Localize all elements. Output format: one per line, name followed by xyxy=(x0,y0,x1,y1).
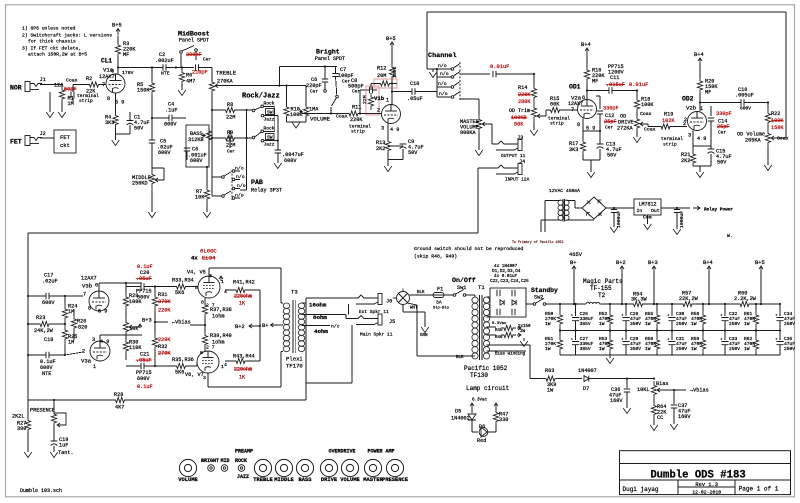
svg-text:V2b: V2b xyxy=(686,105,696,112)
svg-text:220pF: 220pF xyxy=(306,83,322,89)
svg-text:J1: J1 xyxy=(40,77,46,83)
filter capacitor C26 xyxy=(575,303,577,305)
resistor R1 1M xyxy=(59,86,64,103)
svg-text:250V: 250V xyxy=(784,346,795,352)
capacitor C37 47uF 160V xyxy=(673,390,675,404)
plate wire to C2 xyxy=(118,67,163,69)
jack J6 Ext Spkr 11 xyxy=(352,295,378,298)
svg-text:R31: R31 xyxy=(158,292,167,298)
svg-text:1K: 1K xyxy=(239,301,245,307)
svg-text:C10: C10 xyxy=(410,81,419,87)
svg-text:Cer: Cer xyxy=(605,125,614,131)
svg-text:370K: 370K xyxy=(158,299,171,305)
svg-text:220K: 220K xyxy=(158,308,171,314)
svg-text:272KA: 272KA xyxy=(617,126,633,132)
filter resistor R55 xyxy=(656,303,658,305)
svg-text:Red: Red xyxy=(477,438,486,444)
svg-text:n/o: n/o xyxy=(237,183,246,189)
svg-text:Magic Parts: Magic Parts xyxy=(583,278,623,285)
capacitor C6 .001uF 600V xyxy=(184,148,190,151)
svg-text:Panel SPDT: Panel SPDT xyxy=(315,56,345,62)
svg-text:Bright: Bright xyxy=(316,49,340,56)
filter resistor R62 xyxy=(755,329,757,331)
knob PRESENCE xyxy=(386,459,403,476)
wire R3 to plate xyxy=(117,57,119,74)
filter capacitor C28 xyxy=(625,303,627,305)
8ohm tap xyxy=(302,314,347,316)
svg-text:1W: 1W xyxy=(545,321,551,327)
svg-text:1W: 1W xyxy=(691,321,697,327)
svg-text:R35,R36: R35,R36 xyxy=(172,357,194,363)
svg-text:2x150: 2x150 xyxy=(518,325,531,329)
svg-text:350V: 350V xyxy=(630,321,641,327)
svg-text:Cer: Cer xyxy=(203,58,211,63)
svg-text:220K: 220K xyxy=(518,92,531,98)
MidBoost switch SPDT xyxy=(180,54,182,68)
BASS box 312KB xyxy=(186,125,209,167)
jack J5 Main Spkr 11 xyxy=(352,316,378,319)
svg-text:TF-155: TF-155 xyxy=(590,285,612,292)
svg-text:1ohm: 1ohm xyxy=(212,340,224,346)
tube V3b xyxy=(89,291,109,311)
svg-text:Cer: Cer xyxy=(310,89,319,95)
ground below R7 xyxy=(203,212,211,218)
svg-text:4 9: 4 9 xyxy=(390,127,399,133)
choke T2 xyxy=(586,302,600,304)
svg-text:280K: 280K xyxy=(518,99,531,105)
Channel section wire box xyxy=(427,11,786,13)
resistor R25 1M xyxy=(62,324,67,345)
svg-text:5K6: 5K6 xyxy=(175,290,184,296)
svg-text:.015uF: .015uF xyxy=(606,82,625,88)
svg-text:INPUT 12A: INPUT 12A xyxy=(505,177,530,183)
svg-text:22M: 22M xyxy=(226,115,235,121)
svg-text:PREAMP: PREAMP xyxy=(235,449,253,455)
resistor R32 270K->220K xyxy=(152,333,157,352)
svg-text:R41,R42: R41,R42 xyxy=(233,280,255,286)
svg-text:7: 7 xyxy=(102,82,105,88)
capacitor Cer at relay xyxy=(227,138,233,141)
svg-text:Main Spkr 11: Main Spkr 11 xyxy=(360,332,393,338)
HV rectifier block xyxy=(487,296,491,298)
svg-text:SW: SW xyxy=(267,110,273,116)
resistor R11 220K xyxy=(345,111,362,116)
capacitor C12 330pF xyxy=(599,96,601,109)
T3 core xyxy=(292,300,294,353)
resistor R15 60K xyxy=(543,115,546,117)
svg-text:R28: R28 xyxy=(114,392,123,398)
svg-text:T3: T3 xyxy=(291,289,298,296)
svg-text:2: 2 xyxy=(82,349,85,355)
filter capacitor C30 xyxy=(671,303,673,305)
resistor 22M grid (rotated label) xyxy=(368,93,373,110)
svg-text:To Primary of Pacific 1052: To Primary of Pacific 1052 xyxy=(512,240,563,244)
svg-text:330: 330 xyxy=(499,417,508,423)
svg-text:(skip R48, R49): (skip R48, R49) xyxy=(414,254,457,260)
svg-text:50K: 50K xyxy=(514,122,524,128)
resistor R20 150K MF xyxy=(697,78,702,93)
svg-text:Dumble ODS #183: Dumble ODS #183 xyxy=(650,470,745,482)
svg-text:312KB: 312KB xyxy=(188,137,204,143)
svg-text:390pF: 390pF xyxy=(186,52,202,58)
tube V2b xyxy=(688,112,707,131)
svg-text:BASS: BASS xyxy=(299,477,313,483)
filter resistor R53 xyxy=(609,329,611,331)
resistor R35,R36 5K6 xyxy=(172,363,190,368)
svg-text:Dumble 103.sch: Dumble 103.sch xyxy=(20,488,62,494)
svg-text:B+5: B+5 xyxy=(755,260,765,266)
svg-text:110K: 110K xyxy=(129,345,142,351)
svg-text:6: 6 xyxy=(582,95,585,101)
svg-text:MASTER: MASTER xyxy=(363,477,383,483)
capacitor C13 4.7uF 50V xyxy=(583,130,600,132)
svg-text:385V: 385V xyxy=(580,346,591,352)
wire J1 to grid xyxy=(40,84,62,86)
svg-text:Coax: Coax xyxy=(640,111,652,117)
svg-text:102K: 102K xyxy=(662,118,675,124)
svg-text:7: 7 xyxy=(83,292,86,298)
svg-text:terminal: terminal xyxy=(661,136,683,142)
svg-text:VOLUME: VOLUME xyxy=(340,477,360,483)
svg-text:DRIVE: DRIVE xyxy=(321,477,338,483)
filter capacitor C32 xyxy=(724,303,726,305)
svg-text:V6, V7: V6, V7 xyxy=(185,372,204,378)
knob VOLUME xyxy=(179,459,196,476)
B+ rail xyxy=(546,303,586,305)
OD Trim pot xyxy=(531,101,536,124)
ground below R6 xyxy=(181,84,183,90)
svg-text:385V: 385V xyxy=(580,321,591,327)
svg-text:2: 2 xyxy=(684,117,687,123)
filter resistor R61 xyxy=(755,303,757,305)
filter mid rail xyxy=(560,330,780,332)
svg-text:FET: FET xyxy=(10,139,22,146)
plate wire bottom tube to OPT xyxy=(207,373,209,387)
svg-text:3K3: 3K3 xyxy=(105,120,114,126)
svg-text:Coax: Coax xyxy=(336,114,348,120)
svg-text:1M: 1M xyxy=(68,309,74,315)
Rock/Jazz switch 2 xyxy=(252,136,255,139)
MIDDLE pot 250KD xyxy=(152,167,164,169)
svg-text:1W: 1W xyxy=(599,346,605,352)
svg-text:1ohm: 1ohm xyxy=(212,314,224,320)
PAB relay contacts xyxy=(231,170,233,200)
filter resistor R50 xyxy=(559,303,561,305)
filter capacitor C33 xyxy=(724,329,726,331)
svg-text:In: In xyxy=(637,208,643,214)
filter resistor R52 xyxy=(609,303,611,305)
svg-text:4M7: 4M7 xyxy=(186,79,195,85)
svg-text:Relay Power: Relay Power xyxy=(704,208,733,213)
svg-text:Tant.: Tant. xyxy=(58,450,74,456)
wire J4 to power amp send xyxy=(478,167,492,169)
svg-text:50V: 50V xyxy=(408,150,418,156)
svg-text:CL1: CL1 xyxy=(101,58,112,65)
tube V3a xyxy=(90,341,110,361)
svg-text:T2: T2 xyxy=(598,292,606,299)
svg-text:Jazz: Jazz xyxy=(264,117,275,123)
svg-text:C18: C18 xyxy=(44,337,53,343)
svg-text:TREBLE: TREBLE xyxy=(253,477,273,483)
svg-text:Plexi: Plexi xyxy=(286,356,303,363)
OD Volume pot 205KA xyxy=(765,128,770,148)
svg-text:EL34: EL34 xyxy=(202,255,216,262)
MASTER VOLUME pot 900KA xyxy=(478,99,480,115)
svg-text:1W: 1W xyxy=(545,346,551,352)
Vbias arrow xyxy=(155,321,168,323)
svg-text:3A: 3A xyxy=(436,300,442,306)
resistor R2 22K xyxy=(85,82,103,87)
resistor R8 22M xyxy=(224,107,236,112)
svg-text:1: 1 xyxy=(386,98,389,104)
T3 primary winding xyxy=(283,303,290,308)
svg-text:160V: 160V xyxy=(610,398,623,404)
svg-text:820: 820 xyxy=(78,325,87,331)
svg-text:1: 1 xyxy=(93,364,96,370)
svg-text:6: 6 xyxy=(95,283,98,289)
svg-text:J2: J2 xyxy=(40,131,46,137)
svg-text:ROCK: ROCK xyxy=(235,458,247,464)
svg-text:R37,R38: R37,R38 xyxy=(210,307,232,313)
svg-text:R32: R32 xyxy=(158,344,167,350)
T1 core xyxy=(479,295,481,360)
svg-text:900KA: 900KA xyxy=(460,130,476,136)
svg-text:OVERDRIVE: OVERDRIVE xyxy=(328,449,355,455)
svg-text:3: 3 xyxy=(381,126,384,132)
svg-text:n/o: n/o xyxy=(235,166,244,172)
svg-text:2K2L: 2K2L xyxy=(12,414,24,420)
svg-text:R14: R14 xyxy=(518,85,527,91)
wire bass to junction xyxy=(208,143,210,167)
svg-text:210pF: 210pF xyxy=(192,70,208,76)
svg-text:600V: 600V xyxy=(137,376,150,382)
bias winding xyxy=(487,344,531,346)
svg-text:20M: 20M xyxy=(377,73,386,79)
svg-text:50pF: 50pF xyxy=(64,87,76,93)
NFB feed line xyxy=(305,383,307,400)
svg-text:250V: 250V xyxy=(676,346,687,352)
svg-text:1W: 1W xyxy=(744,346,750,352)
svg-text:5 9: 5 9 xyxy=(115,100,124,106)
title block frame xyxy=(620,451,791,495)
svg-text:LM7812: LM7812 xyxy=(638,202,656,208)
svg-text:250V: 250V xyxy=(729,346,740,352)
resistor R29 100K xyxy=(123,292,128,311)
svg-text:2K2: 2K2 xyxy=(681,158,690,164)
svg-text:Ext Spkr 11: Ext Spkr 11 xyxy=(359,309,389,315)
knob MIDDLE xyxy=(275,459,292,476)
svg-text:n/c: n/c xyxy=(331,323,340,329)
svg-text:8: 8 xyxy=(200,350,203,356)
svg-text:390: 390 xyxy=(17,426,26,432)
svg-text:Sw1: Sw1 xyxy=(457,285,466,291)
wire volume wiper to R11 xyxy=(301,112,303,114)
svg-text:22M: 22M xyxy=(362,95,368,104)
svg-text:R33,R34: R33,R34 xyxy=(172,278,194,284)
svg-text:TF170: TF170 xyxy=(286,363,303,370)
svg-text:.02uF: .02uF xyxy=(42,279,58,285)
svg-text:J3: J3 xyxy=(517,135,523,141)
svg-text:16ohm: 16ohm xyxy=(309,302,327,309)
jack J4 INPUT 12A xyxy=(492,165,518,168)
wire master wiper to output jack xyxy=(487,123,492,125)
svg-text:100K: 100K xyxy=(290,112,303,118)
svg-text:V3b: V3b xyxy=(82,283,92,290)
resistor R47 330 xyxy=(493,410,498,424)
svg-text:5 9: 5 9 xyxy=(98,309,107,315)
svg-text:1MA: 1MA xyxy=(309,107,319,113)
svg-text:100K: 100K xyxy=(641,102,654,108)
svg-text:→Vbias: →Vbias xyxy=(690,388,709,394)
svg-text:3) If FET ckt delete,: 3) If FET ckt delete, xyxy=(22,46,81,52)
svg-text:22K,2W: 22K,2W xyxy=(679,296,699,302)
svg-text:Pacific 1052: Pacific 1052 xyxy=(464,365,508,372)
svg-text:VOLUME: VOLUME xyxy=(310,116,331,123)
svg-text:1N4002: 1N4002 xyxy=(451,416,470,422)
svg-text:250V: 250V xyxy=(784,321,795,327)
svg-text:BLK: BLK xyxy=(456,356,464,360)
svg-text:B+2: B+2 xyxy=(616,260,626,266)
capacitor C14 330pF xyxy=(710,106,712,116)
svg-text:MidBoost: MidBoost xyxy=(178,31,210,38)
wire plug ground GRN xyxy=(402,305,404,313)
svg-text:TREBLE: TREBLE xyxy=(216,70,237,77)
cathode R21 2K2 xyxy=(692,131,694,152)
svg-text:MF: MF xyxy=(123,52,129,58)
resistor R31 370K->220K xyxy=(152,292,157,311)
svg-text:1W: 1W xyxy=(547,388,554,394)
svg-text:Coax: Coax xyxy=(66,78,78,84)
svg-text:25pF: 25pF xyxy=(717,124,729,130)
resistor R64 22K CC xyxy=(651,402,656,418)
svg-text:C22,C23,C24,C25: C22,C23,C24,C25 xyxy=(490,279,529,284)
jewel BRIGHT xyxy=(208,465,215,472)
svg-text:3: 3 xyxy=(92,337,95,343)
BASS pot xyxy=(206,128,211,143)
svg-text:1N4007: 1N4007 xyxy=(578,368,597,374)
speaker jack return wires xyxy=(348,304,350,315)
svg-text:6.3Vac: 6.3Vac xyxy=(492,322,507,326)
ground below R1 xyxy=(61,103,63,112)
svg-text:.05uF: .05uF xyxy=(407,96,423,102)
resistor R30 110K xyxy=(123,339,128,354)
svg-text:600V: 600V xyxy=(740,106,751,112)
svg-text:V1b: V1b xyxy=(374,95,385,102)
resistor R24 1M xyxy=(62,303,67,324)
svg-text:B+4: B+4 xyxy=(581,42,591,48)
svg-text:12VAC 450mA: 12VAC 450mA xyxy=(549,188,580,194)
svg-text:1K: 1K xyxy=(239,375,245,381)
ground below R4 xyxy=(112,140,120,146)
svg-text:600V: 600V xyxy=(164,122,177,128)
Rock/Jazz switch 1 xyxy=(252,109,255,112)
svg-text:J4: J4 xyxy=(519,159,525,165)
svg-text:n/o: n/o xyxy=(439,91,448,97)
svg-text:NTE: NTE xyxy=(42,371,51,377)
svg-text:330pF: 330pF xyxy=(603,106,619,112)
svg-text:POWER AMP: POWER AMP xyxy=(367,449,394,455)
ground below MIDDLE pot xyxy=(148,212,156,218)
cathode resistors R37,R38 1ohm xyxy=(202,300,207,319)
svg-text:100KB: 100KB xyxy=(511,115,527,121)
svg-text:1: 1 xyxy=(700,106,703,112)
svg-text:n/o: n/o xyxy=(438,81,447,87)
svg-text:8: 8 xyxy=(88,306,91,312)
resistor R26 820 xyxy=(71,315,76,332)
svg-text:Cer: Cer xyxy=(352,89,361,95)
svg-text:.05uF: .05uF xyxy=(136,276,152,282)
svg-text:220K: 220K xyxy=(158,337,171,343)
resistor R14 220K->280K xyxy=(533,74,535,85)
svg-text:V3a: V3a xyxy=(81,358,92,365)
heater ground xyxy=(523,338,525,341)
svg-text:B+: B+ xyxy=(570,260,576,266)
ground jack sleeve xyxy=(49,92,51,112)
svg-text:220ohm: 220ohm xyxy=(234,367,252,373)
svg-text:2: 2 xyxy=(377,108,380,114)
OD1 cathode ground xyxy=(582,154,584,160)
svg-text:B+4: B+4 xyxy=(694,52,704,58)
svg-text:Cer: Cer xyxy=(227,150,235,155)
capacitor C2 .002uF xyxy=(163,64,166,70)
resistor R6 4M7 xyxy=(181,68,183,71)
svg-text:2.2K,2W: 2.2K,2W xyxy=(734,296,757,302)
AC plug xyxy=(397,292,410,305)
FET ckt box xyxy=(54,130,76,153)
svg-text:.1uF: .1uF xyxy=(165,108,177,114)
svg-text:OD Trim: OD Trim xyxy=(509,108,530,114)
4ohm tap xyxy=(302,325,331,327)
capacitor 1000uF input xyxy=(606,207,634,209)
svg-text:5K6: 5K6 xyxy=(175,370,184,376)
power amp input wire xyxy=(28,232,478,234)
svg-text:100K: 100K xyxy=(771,118,784,124)
svg-text:4 9: 4 9 xyxy=(100,339,109,345)
svg-text:MF: MF xyxy=(592,79,598,85)
filter resistor R56 xyxy=(656,329,658,331)
svg-text:B+5: B+5 xyxy=(386,36,396,42)
relay output wires xyxy=(461,73,491,75)
resistor 150k plate xyxy=(389,64,394,80)
svg-text:1W: 1W xyxy=(599,321,605,327)
svg-text:8: 8 xyxy=(107,96,110,102)
svg-text:n/o: n/o xyxy=(236,174,245,180)
svg-text:205KA: 205KA xyxy=(745,138,761,144)
resistor R23 24K,2W xyxy=(36,321,53,326)
svg-text:PRESENCE: PRESENCE xyxy=(30,408,55,414)
knob TREBLE xyxy=(254,459,271,476)
svg-text:R46: R46 xyxy=(495,336,503,340)
svg-text:R63: R63 xyxy=(545,368,554,374)
svg-text:BRIGHT: BRIGHT xyxy=(201,458,219,464)
svg-text:B+3: B+3 xyxy=(142,318,152,324)
svg-text:R12: R12 xyxy=(377,66,386,72)
OD2 ground xyxy=(693,165,711,167)
resistor R18 100K xyxy=(636,91,638,98)
svg-text:600V: 600V xyxy=(137,295,150,301)
svg-text:R43,R44: R43,R44 xyxy=(233,354,255,360)
T1 secondary xyxy=(483,297,489,303)
resistor R7 10K xyxy=(206,167,208,188)
svg-text:GRN: GRN xyxy=(420,334,428,338)
filter capacitor C34 xyxy=(779,303,781,305)
svg-text:MIDDLE: MIDDLE xyxy=(274,477,294,483)
svg-text:Rev 1.3: Rev 1.3 xyxy=(695,482,718,488)
svg-text:220K: 220K xyxy=(350,117,363,123)
svg-text:B+: B+ xyxy=(262,323,268,329)
svg-text:Lamp circuit: Lamp circuit xyxy=(466,385,509,392)
svg-text:TF130: TF130 xyxy=(470,372,488,379)
